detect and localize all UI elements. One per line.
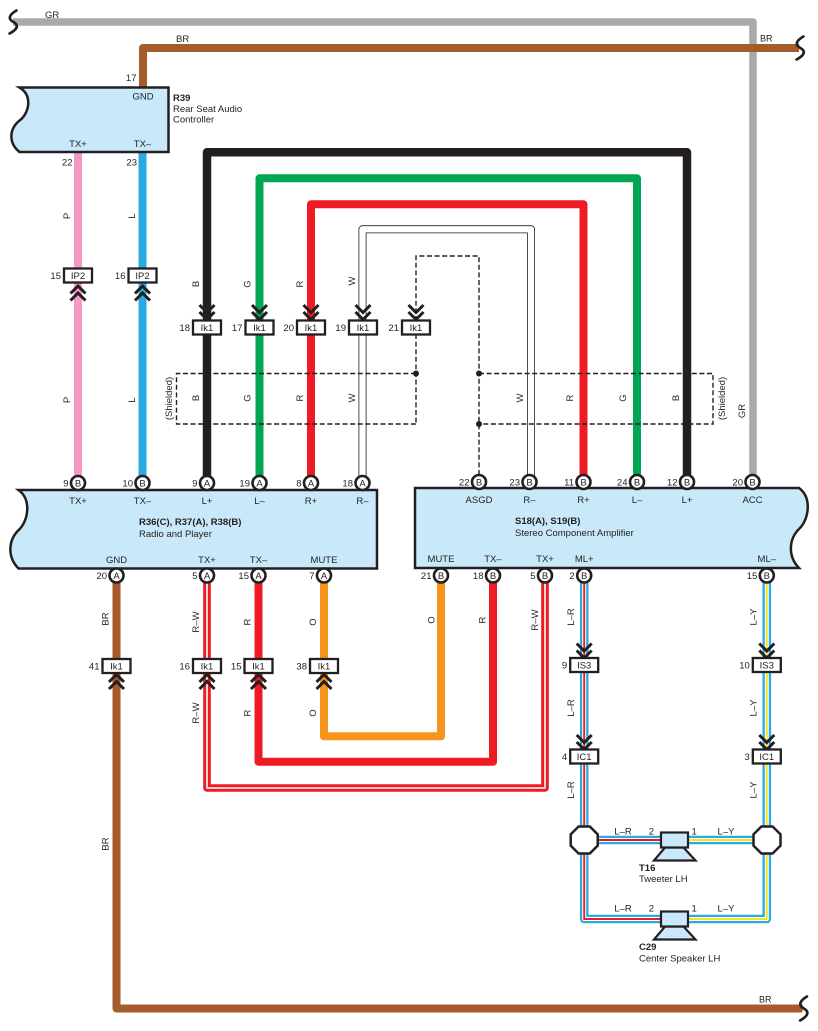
svg-text:9: 9	[63, 479, 68, 490]
svg-text:B: B	[75, 478, 81, 489]
svg-text:L–Y: L–Y	[718, 904, 736, 915]
svg-text:21: 21	[421, 571, 432, 582]
svg-text:R–W: R–W	[191, 702, 202, 723]
svg-text:T16: T16	[639, 863, 655, 874]
svg-text:7: 7	[309, 571, 314, 582]
svg-text:L: L	[127, 213, 138, 218]
svg-text:2: 2	[569, 571, 574, 582]
svg-text:16: 16	[115, 271, 126, 282]
svg-text:23: 23	[126, 158, 137, 169]
svg-text:2: 2	[649, 904, 654, 915]
svg-text:Rear Seat Audio: Rear Seat Audio	[173, 104, 242, 115]
svg-text:A: A	[359, 478, 366, 489]
svg-text:10: 10	[122, 479, 133, 490]
svg-text:15: 15	[231, 662, 242, 673]
svg-text:B: B	[580, 477, 586, 488]
svg-text:20: 20	[96, 571, 107, 582]
svg-text:O: O	[308, 709, 319, 716]
svg-text:38: 38	[296, 662, 307, 673]
svg-text:ML+: ML+	[575, 554, 594, 565]
svg-text:L–Y: L–Y	[749, 608, 760, 626]
svg-text:4: 4	[562, 752, 567, 763]
svg-text:MUTE: MUTE	[311, 555, 338, 566]
svg-text:15: 15	[238, 571, 249, 582]
svg-text:BR: BR	[759, 995, 772, 1005]
svg-text:12: 12	[667, 478, 678, 489]
svg-text:Ik1: Ik1	[305, 323, 318, 334]
svg-text:O: O	[308, 618, 319, 625]
svg-text:3: 3	[745, 752, 750, 763]
svg-text:W: W	[347, 276, 358, 285]
svg-text:11: 11	[564, 478, 574, 489]
svg-text:R–W: R–W	[530, 609, 541, 630]
svg-text:R: R	[295, 394, 306, 401]
svg-text:R: R	[565, 394, 576, 401]
svg-text:18: 18	[179, 323, 190, 334]
svg-text:IC1: IC1	[759, 752, 774, 763]
svg-text:GR: GR	[45, 10, 59, 21]
svg-text:L–R: L–R	[614, 827, 632, 838]
svg-text:TX–: TX–	[134, 139, 152, 150]
svg-text:Ik1: Ik1	[410, 323, 423, 334]
svg-text:P: P	[62, 213, 73, 219]
svg-text:R+: R+	[305, 496, 318, 507]
svg-text:TX+: TX+	[69, 496, 87, 507]
svg-text:B: B	[490, 571, 496, 582]
svg-text:A: A	[321, 571, 328, 582]
svg-text:S18(A), S19(B): S18(A), S19(B)	[515, 516, 580, 527]
svg-text:MUTE: MUTE	[428, 554, 455, 565]
svg-text:TX+: TX+	[69, 139, 87, 150]
svg-text:5: 5	[192, 571, 197, 582]
svg-text:15: 15	[747, 571, 758, 582]
svg-text:R: R	[295, 280, 306, 287]
svg-text:R: R	[243, 618, 254, 625]
svg-text:9: 9	[562, 661, 567, 672]
svg-text:C29: C29	[639, 942, 656, 953]
svg-text:B: B	[634, 477, 640, 488]
svg-text:18: 18	[342, 479, 353, 490]
svg-text:ASGD: ASGD	[466, 495, 493, 506]
svg-text:IS3: IS3	[577, 661, 591, 672]
svg-text:19: 19	[239, 479, 250, 490]
svg-text:A: A	[255, 571, 262, 582]
svg-text:17: 17	[126, 73, 137, 84]
svg-text:L–Y: L–Y	[749, 781, 760, 799]
svg-text:L–R: L–R	[614, 904, 632, 915]
svg-text:Ik1: Ik1	[252, 662, 265, 673]
svg-text:TX+: TX+	[536, 554, 554, 565]
svg-text:B: B	[438, 571, 444, 582]
svg-text:A: A	[204, 571, 211, 582]
svg-text:Tweeter LH: Tweeter LH	[639, 874, 688, 885]
svg-text:(Shielded): (Shielded)	[717, 377, 728, 420]
svg-text:R–: R–	[356, 496, 369, 507]
svg-text:18: 18	[473, 571, 484, 582]
svg-text:TX–: TX–	[134, 496, 152, 507]
svg-text:A: A	[256, 478, 263, 489]
svg-text:GR: GR	[737, 404, 748, 418]
svg-text:L–R: L–R	[566, 781, 577, 799]
svg-text:BR: BR	[760, 34, 773, 44]
svg-text:R: R	[243, 709, 254, 716]
svg-text:22: 22	[62, 158, 73, 169]
svg-text:TX+: TX+	[198, 555, 216, 566]
svg-text:IC1: IC1	[577, 752, 592, 763]
svg-text:B: B	[764, 571, 770, 582]
svg-text:22: 22	[459, 478, 470, 489]
svg-text:BR: BR	[176, 34, 189, 45]
svg-text:L–R: L–R	[566, 608, 577, 626]
svg-text:L–: L–	[254, 496, 265, 507]
svg-text:20: 20	[283, 323, 294, 334]
svg-text:41: 41	[89, 662, 100, 673]
svg-text:B: B	[749, 477, 755, 488]
svg-text:Center Speaker LH: Center Speaker LH	[639, 954, 720, 965]
svg-text:W: W	[347, 393, 358, 402]
svg-text:G: G	[243, 394, 254, 401]
svg-text:R39: R39	[173, 93, 190, 104]
svg-text:ACC: ACC	[742, 495, 762, 506]
svg-text:R–: R–	[523, 495, 536, 506]
svg-text:A: A	[308, 478, 315, 489]
svg-text:8: 8	[296, 479, 301, 490]
svg-text:R–W: R–W	[191, 611, 202, 632]
svg-text:GND: GND	[132, 92, 153, 103]
svg-text:15: 15	[50, 271, 61, 282]
svg-text:GND: GND	[106, 555, 127, 566]
svg-text:24: 24	[617, 478, 628, 489]
svg-text:R: R	[478, 616, 489, 623]
svg-text:L–R: L–R	[566, 699, 577, 717]
svg-text:BR: BR	[101, 837, 112, 850]
svg-text:19: 19	[335, 323, 346, 334]
svg-text:R+: R+	[577, 495, 590, 506]
svg-text:L–Y: L–Y	[749, 699, 760, 717]
svg-text:Radio and Player: Radio and Player	[139, 529, 212, 540]
svg-text:(Shielded): (Shielded)	[164, 377, 175, 420]
svg-text:B: B	[684, 477, 690, 488]
svg-text:Ik1: Ik1	[201, 323, 214, 334]
svg-text:O: O	[427, 616, 438, 623]
svg-text:10: 10	[739, 661, 750, 672]
svg-text:L+: L+	[682, 495, 693, 506]
svg-text:5: 5	[530, 571, 535, 582]
svg-text:21: 21	[388, 323, 399, 334]
svg-text:Ik1: Ik1	[318, 662, 331, 673]
svg-text:Ik1: Ik1	[110, 662, 123, 673]
svg-text:B: B	[191, 395, 202, 401]
svg-text:L+: L+	[202, 496, 213, 507]
svg-text:L–: L–	[632, 495, 643, 506]
svg-text:B: B	[542, 571, 548, 582]
svg-text:L: L	[127, 397, 138, 402]
svg-text:B: B	[581, 571, 587, 582]
svg-text:B: B	[476, 477, 482, 488]
svg-text:B: B	[191, 281, 202, 287]
svg-text:9: 9	[192, 479, 197, 490]
svg-text:B: B	[526, 477, 532, 488]
svg-text:ML–: ML–	[758, 554, 777, 565]
svg-text:G: G	[243, 280, 254, 287]
svg-text:16: 16	[179, 662, 190, 673]
svg-text:Ik1: Ik1	[357, 323, 370, 334]
svg-text:IP2: IP2	[71, 271, 85, 282]
svg-text:B: B	[671, 395, 682, 401]
svg-text:TX–: TX–	[250, 555, 268, 566]
svg-text:P: P	[62, 397, 73, 403]
svg-text:L–Y: L–Y	[718, 827, 736, 838]
svg-text:Stereo Component Amplifier: Stereo Component Amplifier	[515, 528, 634, 539]
svg-text:20: 20	[732, 478, 743, 489]
svg-text:1: 1	[692, 827, 697, 838]
svg-text:R36(C), R37(A), R38(B): R36(C), R37(A), R38(B)	[139, 517, 241, 528]
svg-text:17: 17	[232, 323, 243, 334]
svg-text:23: 23	[509, 478, 520, 489]
svg-text:G: G	[618, 394, 629, 401]
svg-text:2: 2	[649, 827, 654, 838]
svg-text:Controller: Controller	[173, 115, 214, 126]
svg-text:Ik1: Ik1	[253, 323, 266, 334]
svg-text:A: A	[113, 571, 120, 582]
svg-text:TX–: TX–	[484, 554, 502, 565]
svg-text:BR: BR	[101, 612, 112, 625]
svg-text:W: W	[515, 393, 526, 402]
svg-text:Ik1: Ik1	[201, 662, 214, 673]
svg-text:B: B	[139, 478, 145, 489]
svg-text:A: A	[204, 478, 211, 489]
svg-text:IS3: IS3	[760, 661, 774, 672]
svg-text:1: 1	[692, 904, 697, 915]
svg-text:IP2: IP2	[135, 271, 149, 282]
